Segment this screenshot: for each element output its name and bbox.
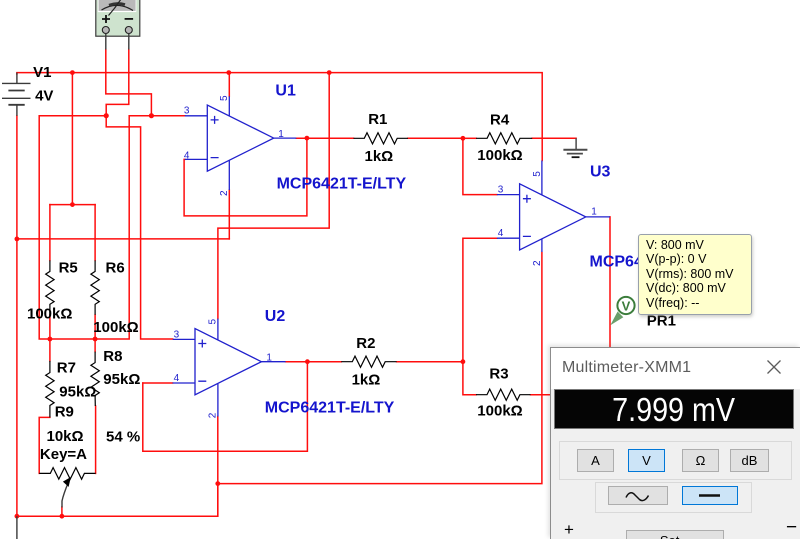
- svg-text:1: 1: [266, 353, 272, 364]
- svg-text:1kΩ: 1kΩ: [352, 371, 381, 388]
- svg-text:4: 4: [184, 150, 190, 161]
- svg-text:10kΩ: 10kΩ: [47, 428, 84, 445]
- svg-text:100kΩ: 100kΩ: [93, 319, 138, 336]
- svg-text:MCP6421T-E/LTY: MCP6421T-E/LTY: [277, 175, 407, 192]
- svg-text:2: 2: [219, 190, 230, 196]
- svg-text:U3: U3: [590, 164, 611, 181]
- svg-text:5: 5: [219, 95, 230, 101]
- svg-text:5: 5: [532, 171, 543, 177]
- svg-text:1: 1: [278, 129, 284, 140]
- svg-text:R5: R5: [59, 260, 78, 277]
- svg-text:U1: U1: [275, 83, 296, 100]
- svg-text:4: 4: [174, 373, 180, 384]
- svg-text:3: 3: [184, 106, 190, 117]
- svg-text:R1: R1: [368, 111, 387, 128]
- svg-text:R9: R9: [55, 404, 74, 421]
- svg-text:4V: 4V: [35, 87, 53, 104]
- svg-text:R6: R6: [106, 260, 125, 277]
- svg-text:2: 2: [532, 260, 543, 266]
- svg-text:3: 3: [174, 329, 180, 340]
- svg-text:2: 2: [208, 412, 219, 418]
- svg-text:5: 5: [208, 319, 219, 325]
- svg-text:1kΩ: 1kΩ: [365, 148, 394, 165]
- svg-text:R7: R7: [57, 360, 76, 377]
- svg-text:U2: U2: [265, 308, 286, 325]
- svg-text:Key=A: Key=A: [40, 446, 87, 463]
- svg-text:R2: R2: [356, 335, 375, 352]
- svg-text:R8: R8: [103, 348, 122, 365]
- svg-text:V: V: [622, 298, 631, 313]
- svg-text:54 %: 54 %: [106, 428, 140, 445]
- svg-text:R3: R3: [489, 365, 508, 382]
- svg-text:R4: R4: [490, 111, 510, 128]
- svg-text:V1: V1: [33, 64, 51, 81]
- svg-text:95kΩ: 95kΩ: [103, 371, 140, 388]
- svg-text:100kΩ: 100kΩ: [27, 306, 72, 323]
- svg-text:95kΩ: 95kΩ: [59, 383, 96, 400]
- svg-text:1: 1: [591, 207, 597, 218]
- svg-text:MCP6421T-E/LTY: MCP6421T-E/LTY: [265, 400, 395, 417]
- svg-text:4: 4: [498, 228, 504, 239]
- svg-text:100kΩ: 100kΩ: [477, 147, 522, 164]
- svg-text:3: 3: [498, 185, 504, 196]
- svg-text:100kΩ: 100kΩ: [477, 403, 522, 420]
